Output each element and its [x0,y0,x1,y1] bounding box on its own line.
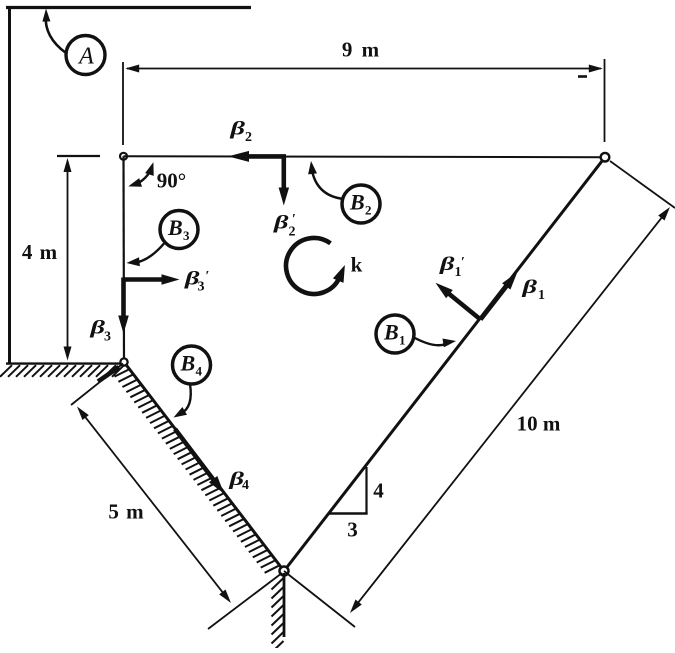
slope triangle horizontal side [328,512,368,514]
svg-text:4 m: 4 m [22,240,58,264]
member right incline (10 m) [284,157,605,571]
svg-text:3: 3 [198,280,205,295]
vector beta1-prime (perpendicular, up-left) [446,292,480,320]
4 m top tick [57,155,100,157]
svg-text:′: ′ [292,212,296,227]
vector beta2 (along top chord, pointing left) [245,154,286,159]
label circle B1 with leader [376,315,456,353]
wall top edge [6,6,251,9]
svg-text:2: 2 [245,130,252,145]
svg-text:B: B [349,190,365,215]
vector beta3-prime (pointing right) [124,277,166,282]
node pin top-right [601,153,610,162]
svg-text:B: B [383,320,399,345]
vector beta4 (down along hatched member) [175,429,216,482]
ground line at lower-left support [6,362,125,364]
svg-text:β: β [89,318,105,339]
wall left edge [8,6,11,363]
stray dash near right arrow [578,75,587,78]
svg-text:β: β [521,277,537,298]
svg-text:10 m: 10 m [517,412,561,436]
svg-text:B: B [167,215,183,240]
svg-text:3: 3 [104,330,111,345]
vector beta3 (down left member) [121,278,126,320]
svg-text:B: B [180,351,196,376]
node pin bottom [280,567,289,576]
label circle B4 with leader [173,346,211,418]
svg-text:4: 4 [373,479,384,503]
label circle B2 with leader [308,161,380,223]
svg-text:1: 1 [399,333,406,348]
svg-text:′: ′ [461,255,465,270]
svg-text:4: 4 [196,364,203,379]
vector beta1 (up along right member) [481,283,509,319]
5 m witness line from top node [71,364,123,406]
member left vertical [122,156,125,362]
svg-text:3: 3 [183,228,190,243]
member lower-left incline (5 m, fixed surface) [124,362,284,571]
ground hatching [0,365,124,377]
rotation arrow k (counterclockwise arc) [286,238,345,294]
svg-text:9 m: 9 m [342,38,381,62]
svg-text:2: 2 [365,203,372,218]
svg-text:1: 1 [538,288,545,303]
4 m dimension line [64,158,72,361]
5 m dimension line [77,407,231,604]
9 m extension line right [604,59,606,142]
10 m dimension line [350,207,670,613]
bottom support hatching [272,578,284,653]
svg-text:90°: 90° [157,169,186,193]
svg-text:β: β [439,254,455,275]
member top chord [124,155,606,158]
5 m witness line from bottom node [208,573,282,629]
node pin bottom-left [120,358,127,365]
bottom support post [283,573,286,637]
9 m extension line left [122,62,124,145]
10 m witness line from bottom node [284,571,355,627]
hatching on incline member [115,369,280,573]
svg-text:β: β [229,119,245,140]
node pin at top-left corner (frame) [120,153,127,160]
10 m witness line from top-right node [610,161,675,208]
svg-text:k: k [351,253,363,277]
ink blob on witness line [98,367,119,382]
svg-text:β: β [273,213,289,234]
9 m dimension line [125,65,603,73]
label circle A with leader [42,9,105,75]
90 degree angle arc [128,162,153,187]
slope triangle vertical side [365,467,367,515]
svg-text:′: ′ [206,269,210,284]
label circle B3 with leader [127,211,199,267]
vector beta2-prime (pointing down from chord) [281,156,286,191]
svg-text:A: A [77,44,94,70]
svg-text:3: 3 [347,518,358,542]
svg-text:4: 4 [242,478,249,493]
svg-text:5 m: 5 m [108,500,144,524]
